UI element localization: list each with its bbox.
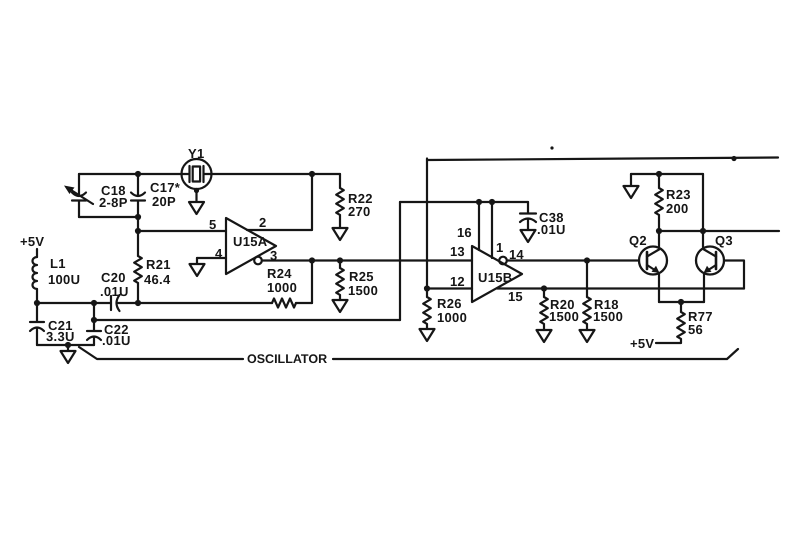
op-amp U15B: [472, 246, 522, 302]
junction dot pin2 riser top: [309, 171, 315, 177]
svg-text:1: 1: [496, 240, 503, 255]
junction dot R18 tap: [584, 257, 590, 263]
svg-text:3.3U: 3.3U: [46, 329, 75, 344]
junction dot top rail: [731, 156, 736, 161]
crystal Y1: [182, 146, 212, 189]
capacitor C38: [520, 202, 566, 237]
wire pin 14 output to Q2 base: [507, 259, 639, 261]
junction dot feedback tap: [91, 317, 97, 323]
svg-text:100U: 100U: [48, 272, 80, 287]
svg-text:5: 5: [209, 217, 216, 232]
junction dot C18 loop bottom: [135, 214, 141, 220]
ground (below R18): [580, 330, 595, 342]
svg-text:46.4: 46.4: [144, 272, 171, 287]
junction dot pin12/R26: [424, 285, 430, 291]
ground (below R26): [420, 329, 435, 341]
wire U15A pin 4: [197, 257, 226, 259]
svg-text:U15B: U15B: [478, 270, 512, 285]
capacitor C22: [87, 303, 131, 348]
wire top rail vertical (to pin 12): [426, 159, 428, 289]
wire riser R24 to output line: [311, 261, 313, 304]
svg-text:12: 12: [450, 274, 465, 289]
ground (below R25): [333, 300, 348, 312]
node A (L1/C21/C20 junction): [34, 300, 40, 306]
svg-text:R25: R25: [349, 269, 374, 284]
resistor R77: [656, 302, 713, 343]
wire Q3 collector drop: [702, 174, 704, 247]
wire crystal top line right: [211, 173, 340, 175]
wire crystal top line left: [79, 173, 182, 175]
wire pin 12 input: [427, 287, 472, 289]
svg-text:L1: L1: [50, 256, 66, 271]
wire U15A pin 2 to crystal riser: [247, 174, 312, 230]
junction dot pin1: [489, 199, 495, 205]
op-amp U15A: [226, 218, 276, 274]
resistor R25: [336, 261, 378, 301]
svg-text:+5V: +5V: [630, 336, 654, 351]
wire L1 to node: [36, 289, 38, 303]
svg-text:56: 56: [688, 322, 703, 337]
+5V supply label (right): [630, 336, 654, 351]
pin label 12: [450, 274, 465, 289]
svg-text:.01U: .01U: [100, 284, 129, 299]
pin label 15: [508, 289, 523, 304]
wire node A to C20: [37, 302, 111, 304]
capacitor C20: [100, 270, 129, 311]
svg-text:.01U: .01U: [537, 222, 566, 237]
wire R23 top segment: [631, 173, 703, 175]
wire riser to supply line of U15B: [399, 202, 401, 320]
junction dot R25 top: [337, 257, 343, 263]
svg-text:2-8P: 2-8P: [99, 195, 128, 210]
ink speck: [550, 146, 553, 149]
wire +5V to L1: [36, 249, 38, 257]
svg-text:270: 270: [348, 204, 371, 219]
ground (top of R23 net): [624, 174, 639, 198]
junction dot R77 top: [678, 299, 684, 305]
node B (C22 top / feedback tap): [91, 300, 97, 306]
output bubble U15B pin 14: [499, 257, 507, 265]
wire feedback lower run: [94, 319, 400, 321]
svg-text:Q3: Q3: [715, 233, 733, 248]
pin label 4: [215, 246, 223, 261]
wire C21/C22 bottom rail: [37, 344, 94, 346]
inductor L1: [33, 256, 81, 289]
wire top rail: [427, 158, 778, 161]
OSCILLATOR label: [247, 352, 327, 366]
pin label 16: [457, 225, 472, 240]
wire R24 to riser: [296, 302, 312, 304]
resistor R23: [655, 174, 691, 231]
svg-text:16: 16: [457, 225, 472, 240]
svg-text:1500: 1500: [549, 309, 579, 324]
ground (below R22): [333, 228, 348, 240]
svg-text:C20: C20: [101, 270, 126, 285]
resistor R26: [423, 289, 467, 330]
pin label 13: [450, 244, 465, 259]
junction dot pin5 tap: [135, 228, 141, 234]
wire collector rail: [659, 230, 779, 232]
boundary line OSCILLATOR left: [79, 347, 243, 359]
svg-text:20P: 20P: [152, 194, 176, 209]
svg-text:13: 13: [450, 244, 465, 259]
svg-text:R23: R23: [666, 187, 691, 202]
ground (pin 4): [190, 258, 205, 276]
wire U15A output to U15B pin 13: [262, 259, 472, 261]
svg-text:.01U: .01U: [102, 333, 131, 348]
ground (below C38): [521, 230, 536, 242]
junction dot under Y1: [194, 188, 199, 193]
+5V supply label (left): [20, 234, 44, 249]
svg-text:R26: R26: [437, 296, 462, 311]
pin label 1: [496, 240, 503, 255]
svg-text:C17*: C17*: [150, 180, 181, 195]
svg-text:U15A: U15A: [233, 234, 268, 249]
ground (below Y1): [189, 189, 204, 214]
resistor R20: [540, 289, 579, 331]
svg-text:+5V: +5V: [20, 234, 44, 249]
svg-text:1500: 1500: [348, 283, 378, 298]
pin label 14: [509, 247, 524, 262]
wire C18 loop bottom: [79, 216, 138, 218]
junction dot pin16: [476, 199, 482, 205]
svg-text:OSCILLATOR: OSCILLATOR: [247, 352, 327, 366]
junction dot R23 bottom / Q2 collector: [656, 228, 662, 234]
capacitor C17: [131, 174, 181, 217]
pin label 3: [270, 248, 277, 263]
svg-text:R24: R24: [267, 266, 292, 281]
svg-text:15: 15: [508, 289, 523, 304]
junction dot R23 top: [656, 171, 662, 177]
svg-text:2: 2: [259, 215, 266, 230]
junction dot bottom rail: [65, 342, 71, 348]
svg-text:1500: 1500: [593, 309, 623, 324]
svg-text:Y1: Y1: [188, 146, 205, 161]
svg-text:R21: R21: [146, 257, 171, 272]
junction dot R20 top: [541, 285, 547, 291]
wire U15B pins 16/1 supply line: [400, 201, 528, 203]
resistor R18: [583, 261, 623, 331]
pin label 5: [209, 217, 216, 232]
resistor R22: [336, 174, 373, 228]
svg-text:Q2: Q2: [629, 233, 647, 248]
transistor Q2: [629, 231, 667, 302]
wire emitter bus: [659, 301, 704, 303]
ground (below R20): [537, 330, 552, 342]
wire Q3 base loop: [724, 261, 744, 289]
junction dot Q3 collector cross: [700, 228, 706, 234]
capacitor C21: [30, 303, 75, 345]
transistor Q3: [696, 233, 733, 302]
svg-text:1000: 1000: [267, 280, 297, 295]
junction dot crystal line left: [135, 171, 141, 177]
capacitor C18 (variable trimmer): [64, 174, 128, 217]
pin label 2: [259, 215, 266, 230]
wire pin 16: [478, 202, 480, 250]
ground (below C21/C22 rail): [61, 345, 76, 363]
svg-text:1000: 1000: [437, 310, 467, 325]
junction dot R24 top: [309, 257, 315, 263]
wire pin 15 output run: [497, 287, 744, 289]
svg-text:200: 200: [666, 201, 689, 216]
wire C20 to R24: [118, 302, 272, 304]
svg-text:4: 4: [215, 246, 223, 261]
resistor R24: [267, 266, 297, 308]
wire pin 1: [491, 202, 493, 258]
output bubble U15A pin 3: [254, 257, 262, 265]
node R21 bottom: [135, 300, 141, 306]
wire U15A pin 5 input: [138, 230, 226, 232]
boundary line OSCILLATOR right: [333, 349, 738, 359]
resistor R21: [134, 217, 171, 303]
